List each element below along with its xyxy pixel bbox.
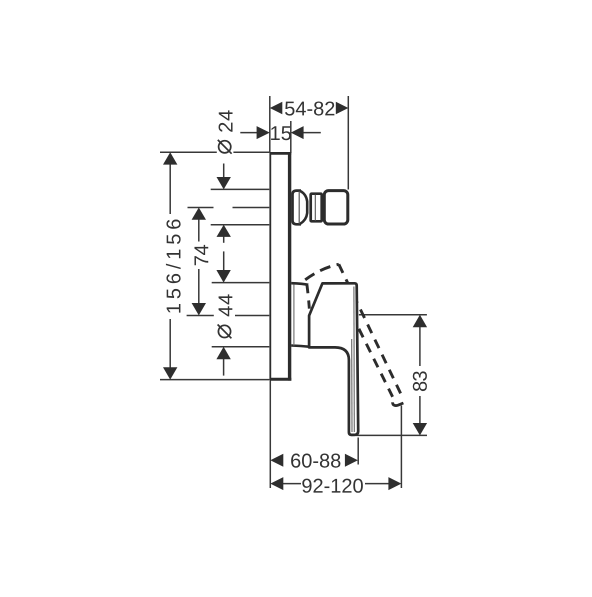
label Ø24 diameter symbol xyxy=(218,140,232,154)
arrow 54-82 right xyxy=(336,102,349,115)
dim shaft Ø24 lower xyxy=(223,236,225,243)
dim shaft Ø44 lower xyxy=(223,359,225,376)
handle grip inner line 1 xyxy=(351,339,353,432)
label 83 (rotated) xyxy=(413,382,427,391)
tick top of knob (Ø24) xyxy=(211,188,270,190)
dashed lever rotated: right edge (long, to rotated grip tip) xyxy=(339,264,401,393)
tick bottom of knob (Ø24) xyxy=(211,224,270,226)
wall plate right edge xyxy=(288,152,291,381)
arrow 60-88 left xyxy=(270,454,283,467)
tick top of 83 dim xyxy=(359,314,427,316)
arrow 54-82 left xyxy=(270,102,283,115)
arrow 83 bottom (points down) xyxy=(413,423,427,435)
extension line left face of plate (vertical, full) xyxy=(269,96,271,152)
label 74 (rotated) xyxy=(194,256,208,265)
label 44 of diameter-44 (rotated) xyxy=(219,306,233,316)
arrow Ø44 top (points down) xyxy=(216,270,230,283)
arrow 92-120 left xyxy=(270,477,283,490)
dim tail 15 left xyxy=(240,132,257,134)
dim shaft Ø24 upper xyxy=(223,164,225,178)
dim shaft 74 xyxy=(198,219,200,242)
dim tail 15 right xyxy=(303,132,321,134)
valve sleeve top edge xyxy=(291,283,308,285)
tick bottom of sleeve (Ø44) xyxy=(212,346,270,348)
arrow Ø24 bottom (points up) xyxy=(217,225,231,237)
valve sleeve bottom edge xyxy=(291,346,309,347)
label 54-82 xyxy=(285,102,294,116)
extension line knob end (54-82 dim) xyxy=(347,96,349,190)
label Ø44 diameter symbol xyxy=(218,325,232,339)
wall plate left edge xyxy=(269,152,271,380)
extension line dashed-handle end (92-120) xyxy=(400,406,402,489)
extension line handle edge (60-88) xyxy=(357,438,359,465)
arrow Ø24 top (points down) xyxy=(217,177,231,189)
extension line plate top (156/156 top tick) xyxy=(160,151,217,153)
label 156/156 (rotated) xyxy=(167,304,181,313)
spout stub cone section xyxy=(293,191,302,225)
dim tail 92-120 right xyxy=(365,483,389,485)
dim shaft 156/156 xyxy=(169,164,171,214)
dashed lever rotated: left edge near sleeve xyxy=(307,285,310,311)
dashed lever rotated: grip tip cap xyxy=(393,402,404,405)
handle lever outline xyxy=(309,283,358,435)
spout stub cone inner line xyxy=(298,191,300,224)
handle grip inner line 2 xyxy=(353,287,355,433)
label 15 xyxy=(271,126,280,140)
spout stub middle section xyxy=(311,194,322,222)
centerline of handle xyxy=(187,315,214,317)
wall plate bottom edge xyxy=(270,378,292,381)
label 92-120 xyxy=(302,479,311,493)
arrow 83 top (points up) xyxy=(413,315,427,327)
arrow 15 left (points right) xyxy=(257,126,270,139)
arrow 156 top (points up) xyxy=(163,152,177,164)
tick bottom of 83 dim xyxy=(352,434,428,436)
arrow 60-88 right xyxy=(345,454,358,467)
arrow 74 bottom (points down) xyxy=(192,303,206,315)
dim shaft Ø44 upper xyxy=(223,251,225,270)
arrow 74 top (points up) xyxy=(192,208,206,220)
extension line plate right face (15 dim) xyxy=(290,121,292,153)
dashed lever rotated: top edge xyxy=(305,264,339,280)
valve sleeve inner line xyxy=(293,285,295,346)
spout stub middle inner line xyxy=(314,195,316,221)
label 60-88 xyxy=(291,454,300,468)
wall plate top edge xyxy=(270,152,292,155)
dashed lever rotated: left edge of grip xyxy=(359,329,393,397)
arrow Ø44 bottom (points up) xyxy=(216,347,230,359)
centerline of knob xyxy=(188,207,214,209)
arrow 156 bottom (points down) xyxy=(163,367,177,379)
dim shaft 83 xyxy=(419,327,421,366)
label 24 of diameter-24 (rotated) xyxy=(219,123,233,132)
extension line plate bottom (156/156 bottom tick) xyxy=(160,379,269,381)
arrow 15 right (points left) xyxy=(291,126,304,139)
arrow 92-120 right xyxy=(388,477,401,490)
tick top of sleeve (Ø44) xyxy=(212,282,270,284)
spout stub end cap xyxy=(324,191,348,224)
dim tail 92-120 left xyxy=(283,483,302,485)
